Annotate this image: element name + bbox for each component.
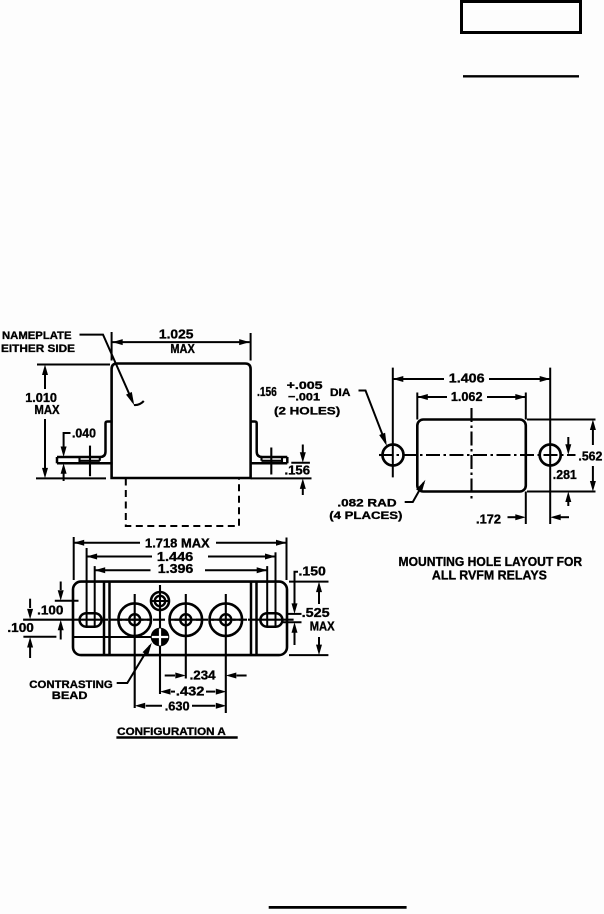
contrasting bead bbox=[73, 628, 169, 647]
dim .100 upper bbox=[37, 582, 78, 640]
right mounting flange bbox=[250, 422, 288, 464]
label .082 RAD (4 PLACES) bbox=[329, 478, 428, 522]
svg-text:.100: .100 bbox=[37, 602, 63, 617]
dim .040 bbox=[61, 426, 96, 482]
label contrasting bead bbox=[29, 641, 154, 702]
relay base outline (bottom view) bbox=[73, 582, 287, 656]
svg-text:EITHER SIDE: EITHER SIDE bbox=[1, 343, 75, 355]
svg-text:.040: .040 bbox=[72, 426, 96, 441]
dim 1.406 bbox=[393, 371, 550, 386]
svg-text:.156: .156 bbox=[257, 384, 277, 399]
title block box bbox=[462, 2, 581, 33]
revision rule bbox=[463, 75, 579, 77]
right mounting hole bbox=[540, 445, 561, 466]
dim .525 MAX bbox=[289, 582, 335, 656]
footer rule bbox=[269, 906, 407, 909]
svg-text:BEAD: BEAD bbox=[52, 690, 88, 702]
svg-text:CONFIGURATION A: CONFIGURATION A bbox=[117, 726, 226, 738]
dim 1.025 MAX bbox=[112, 327, 251, 361]
left flange hole centerline bbox=[89, 446, 91, 477]
dim .172 bbox=[476, 492, 569, 527]
svg-text:.432: .432 bbox=[176, 684, 205, 699]
vertical centerline bbox=[470, 408, 472, 500]
svg-text:1.396: 1.396 bbox=[158, 561, 194, 576]
left hole centerline vertical bbox=[392, 368, 394, 478]
dim .281 bbox=[553, 437, 577, 506]
horizontal centerline bbox=[379, 454, 576, 456]
svg-text:(2 HOLES): (2 HOLES) bbox=[274, 405, 340, 417]
mounting cutout outline bbox=[417, 420, 526, 492]
terminal A2 bbox=[169, 594, 203, 679]
horizontal centerline bottom view bbox=[23, 619, 108, 621]
caption configuration A bbox=[116, 726, 237, 738]
dim 1.010 MAX bbox=[25, 365, 110, 479]
svg-text:1.406: 1.406 bbox=[449, 371, 485, 386]
svg-text:.150: .150 bbox=[299, 563, 326, 578]
flange bend lines bbox=[103, 582, 106, 656]
svg-text:.562: .562 bbox=[578, 448, 602, 463]
right hole centerline vertical bbox=[549, 368, 551, 524]
dim .234 bbox=[165, 668, 247, 683]
left mounting flange bbox=[57, 422, 113, 464]
left slot hole bbox=[80, 613, 102, 627]
dim 1.718 MAX bbox=[74, 535, 287, 580]
relay body outline (side view) bbox=[112, 364, 251, 479]
svg-text:DIA: DIA bbox=[330, 387, 350, 399]
svg-text:.172: .172 bbox=[476, 511, 501, 526]
svg-text:MAX: MAX bbox=[310, 619, 335, 634]
svg-text:.234: .234 bbox=[190, 668, 217, 683]
terminal A1 bbox=[118, 594, 152, 708]
dim .100 lower bbox=[7, 599, 56, 658]
svg-text:MAX: MAX bbox=[34, 402, 59, 417]
svg-text:MAX: MAX bbox=[170, 341, 195, 356]
terminal A3 bbox=[209, 594, 243, 713]
dim .630 bbox=[135, 698, 227, 713]
label .156 +.005 -.001 DIA (2 HOLES) bbox=[257, 380, 390, 447]
svg-text:+.005: +.005 bbox=[287, 380, 323, 392]
dim .432 bbox=[160, 684, 226, 699]
svg-text:.630: .630 bbox=[165, 698, 190, 713]
dim .150 bbox=[283, 563, 326, 645]
svg-text:.100: .100 bbox=[7, 620, 33, 635]
svg-text:.082 RAD: .082 RAD bbox=[337, 497, 396, 509]
svg-text:NAMEPLATE: NAMEPLATE bbox=[2, 330, 72, 342]
svg-text:ALL RVFM RELAYS: ALL RVFM RELAYS bbox=[432, 568, 547, 583]
dim .156 flange offset bbox=[251, 445, 312, 496]
svg-text:1.025: 1.025 bbox=[159, 327, 194, 342]
dim 1.062 bbox=[417, 389, 526, 420]
svg-text:1.062: 1.062 bbox=[451, 389, 483, 404]
right flange hole centerline bbox=[270, 448, 272, 475]
svg-text:−.001: −.001 bbox=[288, 391, 320, 403]
right slot hole bbox=[260, 613, 282, 627]
hidden terminal header (dashed) bbox=[126, 479, 239, 527]
svg-text:.156: .156 bbox=[285, 462, 311, 477]
index terminal bbox=[151, 585, 169, 694]
left mounting hole bbox=[383, 445, 404, 466]
dim .562 bbox=[527, 420, 602, 492]
dim 1.446 bbox=[87, 548, 276, 627]
svg-text:.281: .281 bbox=[553, 467, 577, 482]
dim 1.396 bbox=[95, 561, 268, 627]
svg-text:(4 PLACES): (4 PLACES) bbox=[329, 510, 402, 522]
label nameplate either side bbox=[1, 330, 144, 407]
